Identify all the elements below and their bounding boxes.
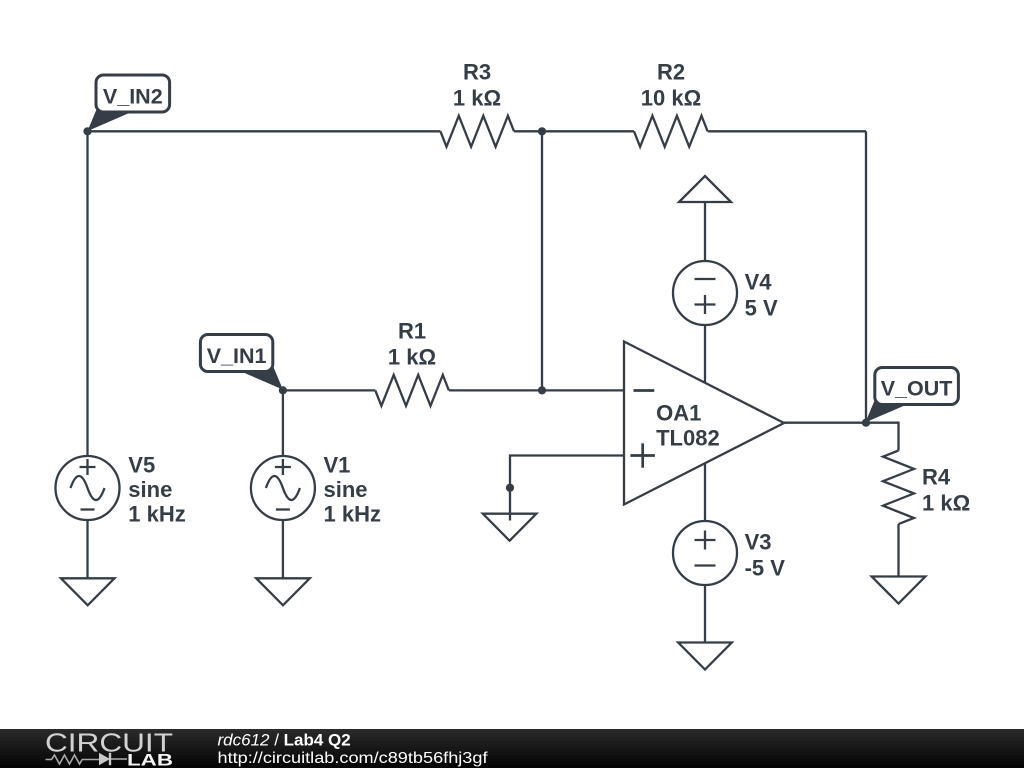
- svg-text:R1: R1: [398, 319, 426, 344]
- op-amp non-inverting input plus sign: [630, 443, 655, 467]
- svg-text:TL082: TL082: [656, 426, 720, 451]
- wire V_IN2 node down to V5 top: [86, 131, 88, 456]
- svg-text:R2: R2: [657, 60, 685, 85]
- wire V3 bottom to ground: [704, 585, 706, 643]
- svg-text:sine: sine: [324, 477, 368, 502]
- wire VCC arrow to V4 top: [704, 202, 706, 261]
- CircuitLab logo resistor-diode glyph: [46, 755, 100, 764]
- svg-text:1 kHz: 1 kHz: [324, 502, 381, 527]
- svg-text:5 V: 5 V: [745, 296, 778, 321]
- svg-text:V1: V1: [324, 453, 351, 478]
- wire V4 bottom to op-amp top edge: [704, 325, 706, 383]
- svg-text:1 kΩ: 1 kΩ: [922, 491, 970, 516]
- svg-text:-5 V: -5 V: [745, 556, 786, 581]
- op-amp OA1 (TL082): [624, 342, 784, 505]
- svg-text:V5: V5: [128, 453, 155, 478]
- wire R1 right to op-amp inverting input: [449, 389, 624, 391]
- wire R2 right to top-right corner: [708, 130, 866, 132]
- resistor R3: [440, 116, 514, 147]
- svg-text:http://circuitlab.com/c89tb56f: http://circuitlab.com/c89tb56fhj3gf: [218, 750, 489, 767]
- svg-text:R4: R4: [922, 465, 951, 490]
- svg-text:OA1: OA1: [656, 400, 701, 425]
- wire op-amp bottom edge to V3 top: [704, 464, 706, 522]
- source V4 5V: [673, 261, 737, 325]
- source V5 sine: [56, 456, 120, 520]
- flag V_IN2: [88, 107, 130, 131]
- resistor R4: [883, 451, 914, 525]
- svg-text:V_OUT: V_OUT: [881, 376, 953, 400]
- ground under V3: [678, 643, 732, 670]
- svg-text:1 kΩ: 1 kΩ: [453, 86, 501, 111]
- ground under R4: [872, 577, 926, 604]
- wire V_IN1 node down to V1 top: [282, 390, 284, 456]
- svg-text:V4: V4: [745, 270, 773, 295]
- svg-text:1 kΩ: 1 kΩ: [388, 345, 436, 370]
- node at non-inverting ground stub: [506, 484, 514, 492]
- wire V1 bottom to ground: [282, 520, 284, 578]
- wire V_IN1 node to R1 left: [283, 389, 375, 391]
- svg-text:10 kΩ: 10 kΩ: [641, 86, 701, 111]
- svg-text:LAB: LAB: [127, 751, 173, 768]
- svg-text:R3: R3: [463, 60, 491, 85]
- svg-text:1 kHz: 1 kHz: [128, 502, 185, 527]
- source V3 -5V: [673, 521, 737, 585]
- wire R3 right to R2 left through junction: [514, 130, 634, 132]
- resistor R2: [634, 116, 708, 147]
- wire op-amp output to V_OUT node and R4 top corner: [784, 423, 899, 451]
- wire V5 bottom to ground: [86, 520, 88, 578]
- flag V_OUT: [865, 399, 907, 423]
- resistor R1: [375, 375, 449, 406]
- ground under V5: [61, 578, 115, 605]
- wire junction at top down to inverting input node: [541, 131, 543, 390]
- power flag VCC arrow above V4: [679, 176, 731, 202]
- wire R4 bottom to ground: [897, 524, 899, 576]
- op-amp inverting input minus sign: [634, 389, 655, 392]
- source V1 sine: [251, 456, 315, 520]
- ground at op-amp non-inverting input: [483, 514, 537, 541]
- svg-text:rdc612 / Lab4 Q2: rdc612 / Lab4 Q2: [218, 730, 351, 749]
- ground under V1: [256, 578, 310, 605]
- wire op-amp non-inverting input left then down to ground: [510, 456, 624, 521]
- wire right vertical feedback down to output node: [865, 131, 867, 422]
- svg-text:sine: sine: [128, 477, 172, 502]
- flag V_IN1: [241, 366, 283, 390]
- svg-text:V3: V3: [745, 530, 772, 555]
- svg-text:V_IN1: V_IN1: [207, 344, 267, 368]
- node junction inverting input: [538, 386, 546, 394]
- wire node V_IN2 to R3 left (top horizontal): [88, 130, 441, 132]
- svg-text:V_IN2: V_IN2: [103, 84, 163, 108]
- node junction top (R3/R2/feedback tap): [538, 127, 546, 135]
